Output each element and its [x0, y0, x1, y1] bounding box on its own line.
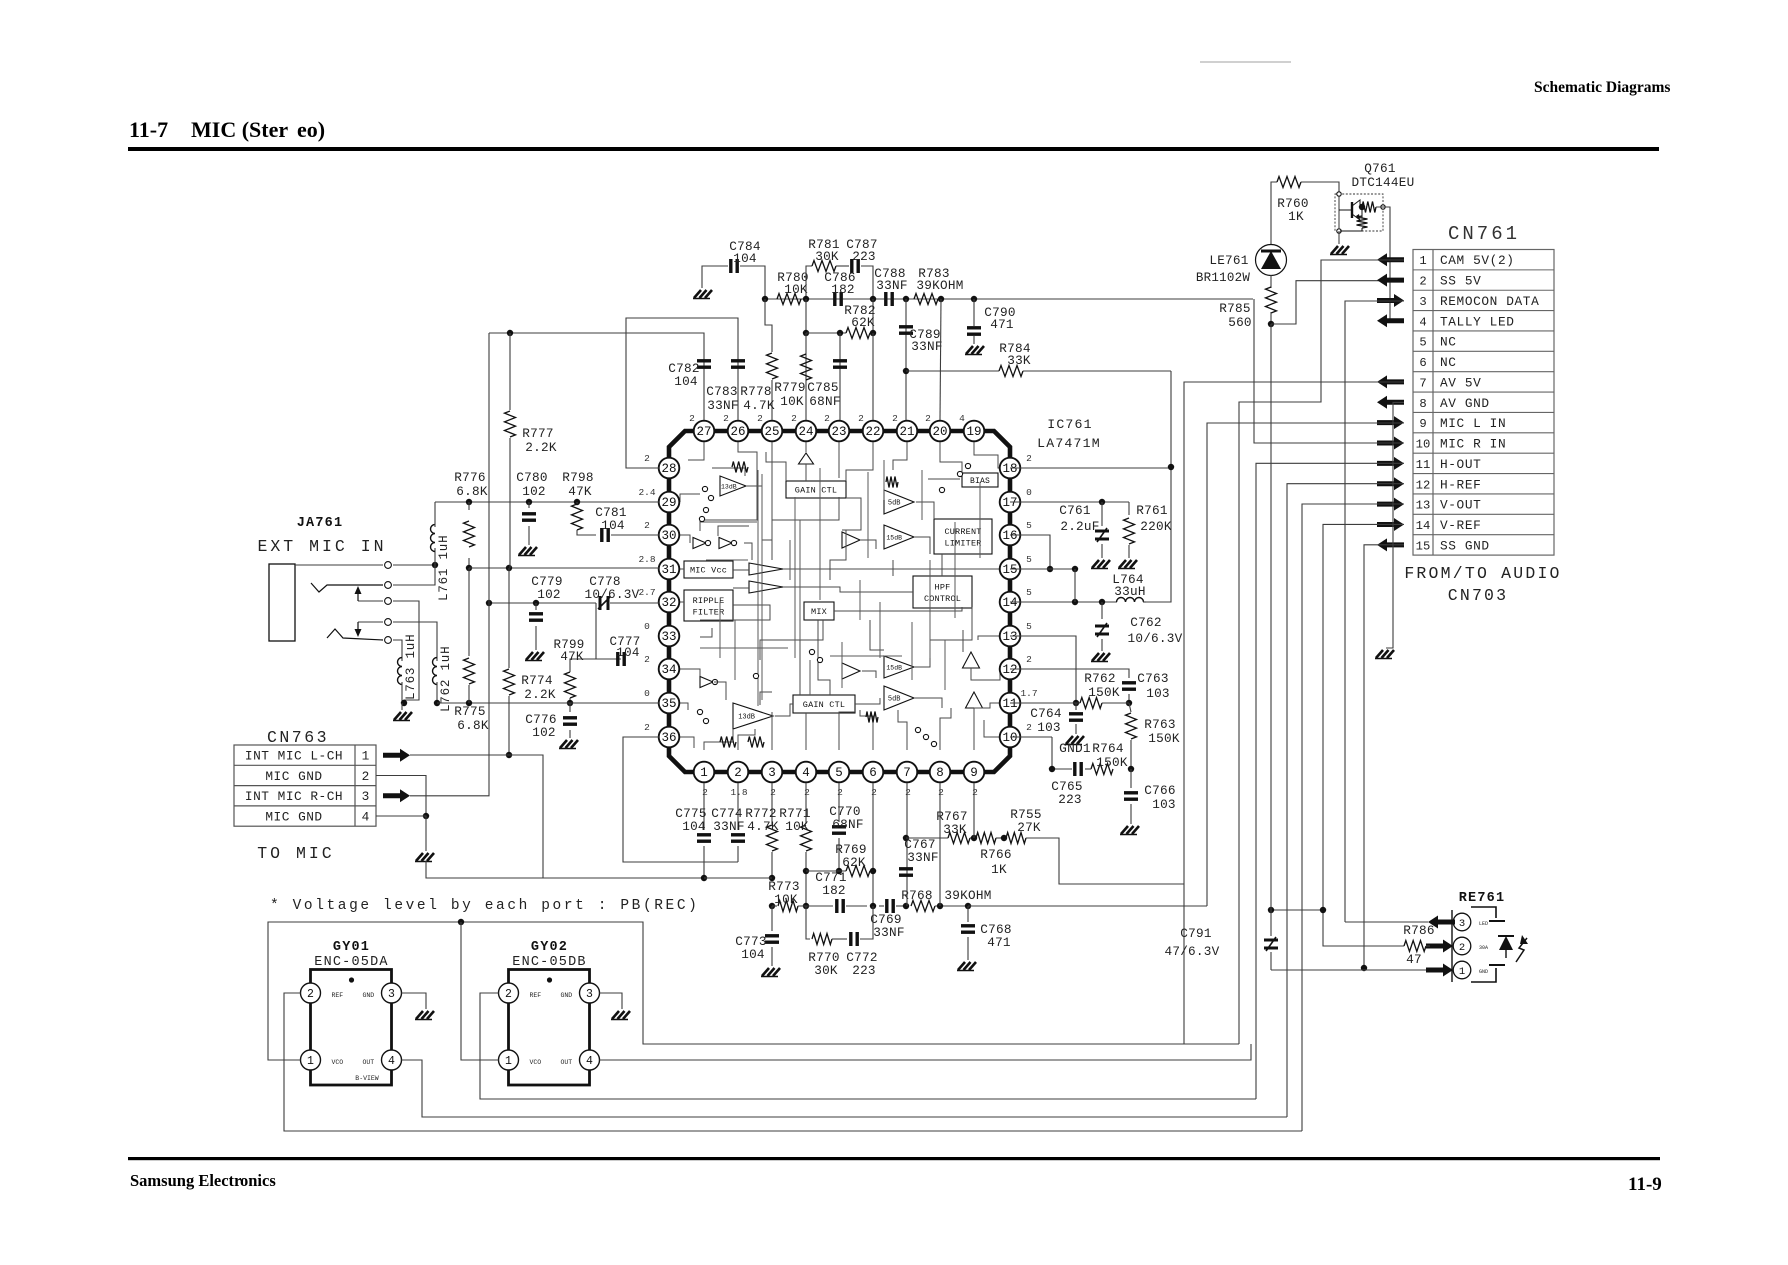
svg-text:182: 182	[822, 883, 846, 898]
svg-text:33NF: 33NF	[911, 339, 942, 354]
svg-text:REF: REF	[530, 992, 542, 999]
ground C761	[1092, 560, 1099, 568]
svg-text:GY01: GY01	[333, 940, 370, 955]
ground C766	[1121, 826, 1128, 834]
svg-text:15: 15	[1002, 563, 1017, 577]
wire pin14 to L764	[1010, 601, 1117, 603]
capacitor C769 33NF	[879, 905, 884, 907]
svg-text:2: 2	[644, 453, 650, 464]
resistor R768 39KOHM	[911, 901, 935, 912]
svg-text:GAIN CTL: GAIN CTL	[795, 486, 837, 496]
wire CN761 pin9 MICLIN net	[1207, 423, 1404, 906]
svg-text:2: 2	[871, 787, 877, 798]
svg-text:R774: R774	[521, 673, 552, 688]
ground C790	[966, 346, 973, 354]
svg-text:104: 104	[682, 819, 706, 834]
svg-text:11-9: 11-9	[1628, 1174, 1662, 1195]
resistor R798 47K	[574, 499, 580, 505]
svg-text:L762 1uH: L762 1uH	[439, 646, 453, 712]
capacitor C776 102	[569, 703, 571, 712]
wire R784 to pin18 and L764	[1146, 371, 1171, 602]
svg-text:27: 27	[696, 425, 711, 439]
svg-text:33NF: 33NF	[713, 819, 744, 834]
svg-text:ENC-05DA: ENC-05DA	[314, 955, 388, 970]
svg-text:5: 5	[1026, 520, 1032, 531]
svg-text:68NF: 68NF	[832, 817, 863, 832]
svg-text:3: 3	[586, 988, 593, 1001]
resistor R755 27K	[1006, 833, 1026, 844]
svg-text:OUT: OUT	[363, 1059, 375, 1066]
svg-text:SS 5V: SS 5V	[1440, 274, 1481, 289]
svg-text:MIC (Ster: MIC (Ster	[191, 117, 288, 142]
svg-text:H-REF: H-REF	[1440, 477, 1481, 492]
capacitor C767 33NF below pin7	[906, 783, 908, 906]
svg-text:103: 103	[1152, 797, 1176, 812]
capacitor C791 47/6.3V	[1270, 324, 1272, 936]
svg-text:0: 0	[644, 621, 650, 632]
wire pin35 rail	[437, 702, 659, 704]
svg-text:R766: R766	[980, 847, 1011, 862]
svg-text:BR1102W: BR1102W	[1196, 271, 1251, 285]
svg-text:103: 103	[1146, 686, 1170, 701]
svg-text:10/6.3V: 10/6.3V	[1127, 631, 1182, 646]
svg-text:OUT: OUT	[561, 1059, 573, 1066]
svg-text:3: 3	[768, 766, 776, 780]
svg-text:GND: GND	[561, 992, 573, 999]
wire CN761 pin8 AVGND net	[1386, 402, 1404, 648]
resistor R761 220K	[1128, 502, 1130, 515]
svg-text:2.2uF: 2.2uF	[1060, 519, 1099, 534]
svg-text:30K: 30K	[815, 249, 839, 264]
wire pin12 to C763	[1010, 669, 1129, 678]
diode RE761 photodiode	[1498, 935, 1514, 937]
svg-text:CN763: CN763	[267, 728, 329, 747]
resistor R786 47	[1323, 941, 1404, 946]
capacitor C762 10/6.3V	[1101, 602, 1103, 619]
svg-text:2: 2	[1026, 453, 1032, 464]
svg-text:R768: R768	[901, 888, 932, 903]
svg-text:223: 223	[852, 963, 876, 978]
svg-text:2: 2	[307, 988, 314, 1001]
arrow CN763 pin1	[383, 749, 410, 762]
arrows CN761	[1377, 253, 1404, 266]
svg-text:C780: C780	[516, 470, 547, 485]
svg-text:9: 9	[1419, 417, 1426, 431]
IC761 internal contacts	[702, 486, 707, 491]
capacitor C782 104 above pin27	[489, 333, 704, 420]
svg-text:2: 2	[858, 413, 864, 424]
svg-text:SS GND: SS GND	[1440, 538, 1490, 553]
ground C776	[560, 740, 567, 748]
IC761 pins	[694, 421, 715, 442]
wire GY01 pin2 REF to VOUT bus	[284, 993, 1302, 1131]
inductor L761 1uH	[434, 548, 436, 565]
capacitor C766 103	[1130, 769, 1132, 788]
svg-text:LE761: LE761	[1209, 253, 1248, 268]
resistor R767 33K	[906, 837, 948, 839]
svg-text:47: 47	[1406, 952, 1422, 967]
svg-text:33NF: 33NF	[873, 925, 904, 940]
svg-text:2: 2	[938, 787, 944, 798]
svg-text:2: 2	[1459, 942, 1465, 954]
jack switch arrow down	[357, 622, 359, 632]
resistor R777 2.2K	[509, 333, 511, 410]
svg-text:2: 2	[689, 413, 695, 424]
svg-text:HPF: HPF	[935, 582, 951, 592]
arrow RE761 pin2	[1426, 940, 1453, 953]
resistor R773 10K	[769, 903, 775, 909]
svg-text:22: 22	[865, 425, 880, 439]
capacitor C778 10/6.3V electrolytic	[599, 596, 602, 610]
svg-text:6.8K: 6.8K	[456, 484, 488, 499]
svg-text:2.2K: 2.2K	[525, 440, 557, 455]
svg-text:13: 13	[1002, 630, 1017, 644]
svg-text:35: 35	[661, 697, 676, 711]
svg-text:33uH: 33uH	[1114, 584, 1145, 599]
capacitor C763 103	[1122, 681, 1136, 684]
wire pin36 loop	[623, 737, 738, 862]
arrow RE761 pin1	[1426, 964, 1453, 977]
jack contact 5 lever	[327, 629, 383, 640]
wire CN761 pin1 CAM5V net	[1239, 260, 1404, 1044]
capacitor C777 104	[616, 652, 619, 666]
wire pin16	[1010, 535, 1050, 569]
svg-text:REF: REF	[332, 992, 344, 999]
svg-text:R798: R798	[562, 470, 593, 485]
svg-text:62K: 62K	[851, 315, 875, 330]
svg-text:150K: 150K	[1088, 685, 1120, 700]
svg-text:MIC R IN: MIC R IN	[1440, 437, 1506, 452]
svg-text:1: 1	[1419, 254, 1426, 268]
svg-text:33: 33	[661, 630, 676, 644]
svg-text:DTC144EU: DTC144EU	[1352, 175, 1415, 190]
capacitor C771 182	[835, 899, 838, 913]
svg-text:10K: 10K	[785, 819, 809, 834]
svg-text:1.8: 1.8	[730, 787, 747, 798]
svg-text:62K: 62K	[842, 855, 866, 870]
capacitor C779 102	[533, 600, 539, 606]
wire pin15	[1010, 568, 1075, 570]
svg-text:0: 0	[644, 688, 650, 699]
capacitor C761 2.2uF	[1010, 501, 1129, 503]
resistor R784 33K	[906, 370, 999, 372]
svg-text:NC: NC	[1440, 355, 1457, 370]
capacitor C780 102	[526, 499, 532, 505]
svg-text:471: 471	[987, 935, 1011, 950]
svg-text:2: 2	[644, 654, 650, 665]
svg-text:7: 7	[903, 766, 911, 780]
svg-text:C764: C764	[1030, 706, 1061, 721]
ground C768	[958, 962, 965, 970]
svg-text:12: 12	[1416, 478, 1431, 492]
ground GY02 pin3	[600, 993, 623, 1009]
svg-text:5dB: 5dB	[888, 500, 901, 508]
wire pin10	[1010, 736, 1052, 738]
svg-text:102: 102	[537, 587, 561, 602]
svg-text:13dB: 13dB	[721, 484, 737, 491]
svg-text:4: 4	[802, 766, 810, 780]
svg-text:68NF: 68NF	[809, 394, 840, 409]
resistor R764 150K	[1091, 764, 1113, 775]
wire CN761 pin12 HREF net	[1287, 484, 1404, 1117]
svg-text:5: 5	[835, 766, 843, 780]
resistor R782 62K	[805, 299, 807, 333]
svg-text:C783: C783	[706, 384, 737, 399]
svg-text:2: 2	[644, 722, 650, 733]
svg-text:47/6.3V: 47/6.3V	[1164, 944, 1219, 959]
svg-text:104: 104	[733, 251, 757, 266]
ground L763	[401, 703, 403, 710]
wire CN763 row1 to C775 bottom	[509, 755, 704, 878]
svg-text:VCO: VCO	[530, 1059, 542, 1066]
wire CN761 pin3 REMOCON net	[1345, 301, 1404, 922]
svg-text:2: 2	[1419, 275, 1426, 289]
jack contact 4	[358, 621, 383, 623]
jack switch arrow up	[357, 591, 359, 601]
svg-text:Samsung Electr: Samsung Electr	[130, 1171, 241, 1190]
ground GY01 pin3	[402, 993, 427, 1009]
svg-text:4: 4	[586, 1055, 593, 1068]
svg-text:TALLY LED: TALLY LED	[1440, 314, 1515, 329]
svg-text:104: 104	[741, 947, 765, 962]
resistor R799 47K	[596, 603, 621, 659]
wire GY02 pin1 VCO	[461, 922, 499, 1060]
svg-text:MIC GND: MIC GND	[265, 769, 322, 784]
svg-text:30A: 30A	[1479, 945, 1488, 951]
svg-text:2: 2	[505, 988, 512, 1001]
resistor R771 10K below pin4	[805, 783, 807, 824]
svg-text:182: 182	[831, 282, 855, 297]
svg-text:20: 20	[932, 425, 947, 439]
svg-text:onics: onics	[240, 1171, 276, 1190]
wire pin13 to C764	[1010, 636, 1076, 703]
resistor R763 150K	[1129, 703, 1131, 712]
svg-text:C763: C763	[1137, 671, 1168, 686]
svg-text:2.2K: 2.2K	[524, 687, 556, 702]
svg-text:C761: C761	[1059, 503, 1090, 518]
wire pin8 below	[939, 783, 941, 906]
svg-text:6: 6	[1419, 356, 1426, 370]
svg-text:6.8K: 6.8K	[457, 718, 489, 733]
capacitor C787 223	[836, 265, 849, 267]
wire pin32 line	[489, 602, 596, 604]
svg-text:R763: R763	[1144, 717, 1175, 732]
svg-text:R778: R778	[740, 384, 771, 399]
svg-text:2: 2	[905, 787, 911, 798]
resistor R760 1K	[1271, 182, 1277, 210]
svg-text:33NF: 33NF	[907, 850, 938, 865]
svg-text:4: 4	[388, 1055, 395, 1068]
arrow RE761 pin3	[1428, 916, 1455, 929]
svg-text:2.4: 2.4	[638, 487, 655, 498]
svg-text:REMOCON DATA: REMOCON DATA	[1440, 294, 1539, 309]
svg-text:3: 3	[1459, 918, 1465, 930]
inductor L762 1uH	[436, 648, 438, 661]
wire CN763 pin3 to pin32 net	[410, 333, 489, 796]
resistor R772 4.7K below pin3	[771, 783, 773, 824]
svg-text:30: 30	[661, 529, 676, 543]
svg-text:5: 5	[1026, 554, 1032, 565]
svg-text:7: 7	[1419, 376, 1426, 390]
svg-text:4: 4	[362, 810, 370, 825]
IC U1 IC761 LA7471M outline	[669, 431, 1010, 772]
svg-text:GND: GND	[363, 992, 375, 999]
wire GY01 pin4 OUT to HREF bus	[402, 1060, 1288, 1117]
svg-text:JA761: JA761	[297, 516, 344, 531]
wire CN761 pin14 VREF net	[1323, 524, 1404, 941]
svg-text:MIC Vcc: MIC Vcc	[690, 566, 727, 576]
svg-text:36: 36	[661, 731, 676, 745]
wire CN763 pin4 ground net	[376, 816, 426, 851]
svg-text:21: 21	[899, 425, 914, 439]
ground Q761	[1338, 231, 1340, 244]
svg-text:INT MIC R-CH: INT MIC R-CH	[245, 789, 343, 804]
svg-text:CAM 5V(2): CAM 5V(2)	[1440, 253, 1515, 268]
svg-text:104: 104	[601, 518, 625, 533]
arrow RE761 light	[1516, 938, 1527, 962]
svg-text:C762: C762	[1130, 615, 1161, 630]
svg-text:6: 6	[869, 766, 877, 780]
svg-text:Schematic Diagrams: Schematic Diagrams	[1534, 79, 1670, 96]
svg-text:2: 2	[837, 787, 843, 798]
svg-text:AV GND: AV GND	[1440, 396, 1490, 411]
svg-text:19: 19	[966, 425, 981, 439]
jack contact 1	[295, 564, 383, 566]
jack contact 2 lever	[311, 583, 383, 592]
svg-text:NC: NC	[1440, 335, 1457, 350]
svg-text:R785: R785	[1219, 301, 1250, 316]
svg-text:LA7471M: LA7471M	[1037, 436, 1101, 451]
svg-text:17: 17	[1002, 496, 1017, 510]
capacitor C774 33NF below pin2	[737, 783, 739, 830]
svg-text:15dB: 15dB	[886, 665, 902, 672]
svg-text:R777: R777	[522, 426, 553, 441]
svg-text:26: 26	[730, 425, 745, 439]
svg-text:104: 104	[616, 646, 639, 660]
svg-text:23: 23	[831, 425, 846, 439]
resistor R774 2.2K	[508, 568, 510, 668]
ground C773	[762, 968, 769, 976]
svg-text:47K: 47K	[560, 650, 584, 664]
wire pin9 below	[973, 783, 975, 838]
svg-text:2: 2	[892, 413, 898, 424]
svg-text:eo): eo)	[297, 117, 325, 142]
svg-text:1: 1	[1459, 966, 1465, 978]
svg-text:CN703: CN703	[1448, 586, 1509, 605]
svg-text:C785: C785	[807, 380, 838, 395]
svg-text:10K: 10K	[780, 394, 804, 409]
resistor R783 39KOHM	[914, 294, 938, 305]
wire pin6 below	[872, 783, 874, 906]
svg-text:5: 5	[1026, 621, 1032, 632]
wire MIC GND extension	[426, 861, 543, 878]
svg-text:3: 3	[1419, 295, 1426, 309]
svg-text:471: 471	[990, 317, 1014, 332]
svg-text:2: 2	[1026, 722, 1032, 733]
capacitor C789 33NF above pin21	[905, 299, 907, 420]
svg-text:104: 104	[674, 374, 698, 389]
svg-text:4: 4	[959, 413, 965, 424]
wire rail MICVCC	[765, 298, 1253, 300]
svg-text:4.7K: 4.7K	[747, 819, 779, 834]
resistor R770 30K	[806, 906, 810, 939]
svg-text:1: 1	[700, 766, 708, 780]
wire CN763 pin2 ground net	[376, 776, 426, 817]
capacitor C772 223	[832, 938, 847, 940]
wire CN763 pin1 to R774	[410, 754, 509, 756]
svg-text:MIC L IN: MIC L IN	[1440, 416, 1506, 431]
svg-text:11: 11	[1416, 458, 1431, 472]
capacitor C773 104	[771, 906, 773, 931]
svg-text:L761 1uH: L761 1uH	[437, 535, 451, 601]
capacitor C788 33NF	[884, 292, 887, 306]
svg-text:15dB: 15dB	[886, 535, 902, 542]
svg-text:33K: 33K	[1007, 353, 1031, 368]
svg-text:2: 2	[972, 787, 978, 798]
svg-text:V-OUT: V-OUT	[1440, 498, 1481, 513]
ground C780	[519, 547, 526, 555]
svg-text:13dB: 13dB	[738, 714, 755, 722]
IC761 internal amplifiers	[720, 476, 746, 496]
capacitor C783 33NF above pin26	[626, 318, 738, 468]
ground C779	[526, 652, 533, 660]
svg-text:11: 11	[1002, 697, 1017, 711]
svg-text:MIC GND: MIC GND	[265, 810, 322, 825]
resistor R781 30K	[806, 266, 812, 299]
svg-text:2: 2	[644, 520, 650, 531]
svg-text:12: 12	[1002, 663, 1017, 677]
svg-text:1.7: 1.7	[1020, 688, 1037, 699]
svg-text:GND: GND	[1479, 969, 1488, 975]
svg-text:150K: 150K	[1096, 755, 1128, 770]
svg-text:V-REF: V-REF	[1440, 518, 1481, 533]
svg-text:5: 5	[1026, 587, 1032, 598]
svg-text:* Voltage level by each port :: * Voltage level by each port : PB(REC)	[270, 898, 699, 914]
wire CN761 pin7 AV5V net	[1184, 382, 1404, 1044]
svg-text:3: 3	[362, 789, 370, 804]
svg-text:25: 25	[764, 425, 779, 439]
wire GY02 pin4 OUT	[600, 1044, 1252, 1060]
resistor R769 62K	[806, 870, 846, 872]
svg-text:AV 5V: AV 5V	[1440, 375, 1481, 390]
svg-text:3: 3	[388, 988, 395, 1001]
svg-text:H-OUT: H-OUT	[1440, 457, 1481, 472]
svg-text:47K: 47K	[568, 484, 592, 499]
svg-text:1: 1	[307, 1055, 314, 1068]
wire R772 to C775 line	[704, 877, 772, 879]
svg-text:102: 102	[532, 725, 556, 740]
svg-text:CN761: CN761	[1448, 223, 1520, 245]
wire R785 to CN761 pin2	[1271, 281, 1404, 324]
svg-text:8: 8	[936, 766, 944, 780]
svg-text:2: 2	[757, 413, 763, 424]
svg-text:560: 560	[1228, 315, 1252, 330]
svg-text:10K: 10K	[774, 892, 798, 907]
resistor R766 1K	[976, 833, 996, 844]
svg-text:2.8: 2.8	[638, 554, 655, 565]
wire LED net to RE761 pin1	[1271, 909, 1323, 911]
capacitor C764 103	[1075, 703, 1077, 710]
capacitor C790 471	[973, 299, 975, 326]
svg-text:1K: 1K	[991, 862, 1007, 877]
wire CN761 pin11 HOUT net	[1256, 463, 1404, 1099]
svg-text:4: 4	[1419, 315, 1426, 329]
svg-text:39KOHM: 39KOHM	[944, 888, 991, 903]
svg-text:223: 223	[1058, 792, 1082, 807]
resistor R779 10K above pin24	[805, 333, 807, 420]
svg-text:LED: LED	[1479, 921, 1488, 927]
svg-text:2.7: 2.7	[638, 587, 655, 598]
